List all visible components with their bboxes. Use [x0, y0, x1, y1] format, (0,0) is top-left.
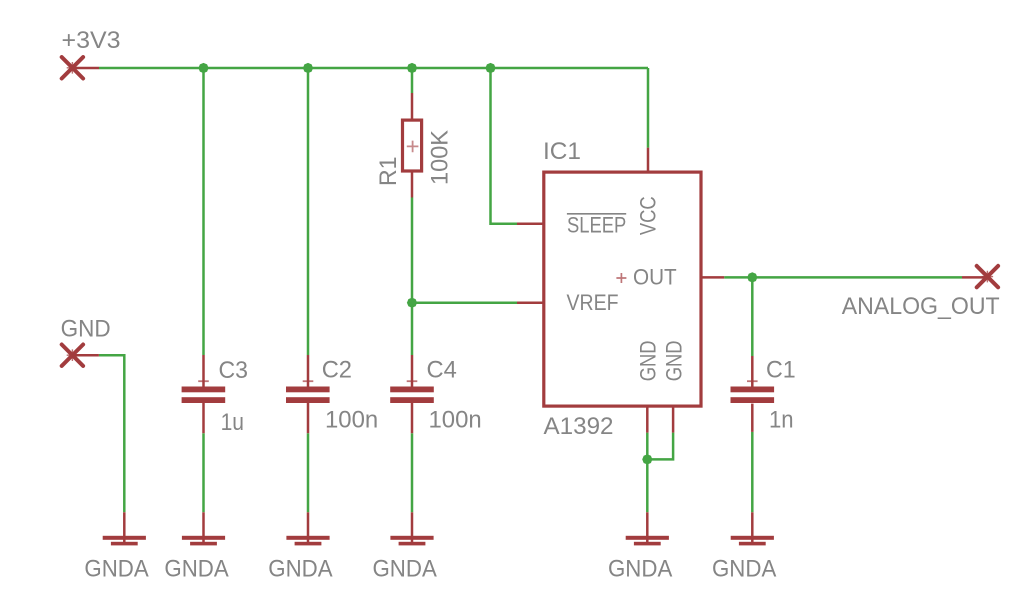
svg-text:ANALOG_OUT: ANALOG_OUT — [842, 293, 1000, 320]
svg-text:IC1: IC1 — [543, 138, 581, 165]
svg-text:A1392: A1392 — [544, 413, 614, 440]
svg-text:GND: GND — [635, 340, 660, 381]
svg-text:GND: GND — [61, 316, 111, 343]
svg-text:GNDA: GNDA — [373, 556, 437, 583]
svg-text:C3: C3 — [219, 357, 249, 384]
svg-text:GNDA: GNDA — [712, 556, 776, 583]
svg-text:C2: C2 — [322, 357, 352, 384]
svg-text:VCC: VCC — [636, 196, 661, 235]
svg-text:GNDA: GNDA — [84, 556, 148, 583]
svg-text:C4: C4 — [427, 357, 457, 384]
svg-text:1u: 1u — [221, 409, 244, 436]
svg-text:SLEEP: SLEEP — [567, 212, 626, 237]
svg-text:VREF: VREF — [567, 290, 619, 315]
svg-text:C1: C1 — [766, 357, 796, 384]
svg-text:GND: GND — [662, 340, 687, 381]
svg-text:R1: R1 — [375, 157, 402, 187]
svg-text:+3V3: +3V3 — [62, 27, 121, 54]
svg-text:1n: 1n — [769, 407, 794, 434]
svg-text:100n: 100n — [325, 407, 378, 434]
svg-text:OUT: OUT — [633, 265, 677, 290]
svg-text:100K: 100K — [427, 130, 454, 185]
svg-text:GNDA: GNDA — [608, 556, 672, 583]
svg-text:GNDA: GNDA — [164, 556, 228, 583]
svg-text:GNDA: GNDA — [268, 556, 332, 583]
svg-text:100n: 100n — [429, 407, 482, 434]
